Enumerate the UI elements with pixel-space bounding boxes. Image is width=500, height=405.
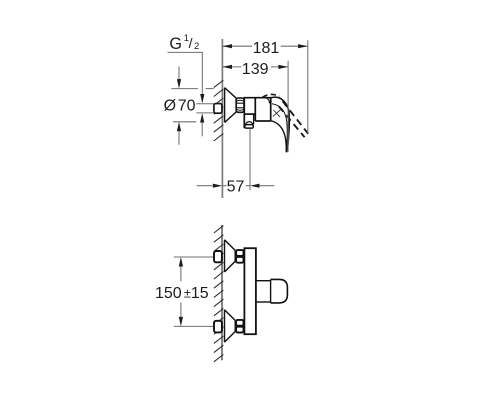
svg-text:57: 57 xyxy=(227,179,245,196)
wall hatching (plan view) xyxy=(214,226,224,362)
bottom union nut (plan) xyxy=(236,320,243,326)
svg-text:/: / xyxy=(189,35,193,51)
extension line for 181 xyxy=(307,40,309,133)
lever inner contour line xyxy=(272,104,287,152)
dimension 139 xyxy=(223,66,288,68)
svg-text:150±15: 150±15 xyxy=(155,285,209,302)
dimension 181 xyxy=(223,45,308,47)
shower outlet (side view) xyxy=(245,114,254,128)
dimension 150 ±15 xyxy=(174,256,214,258)
cartridge housing (plan) xyxy=(256,280,271,282)
extension line for 139 xyxy=(287,61,289,152)
G1/2 extension lines at nipple xyxy=(196,103,214,105)
lever detail cross xyxy=(273,110,281,117)
wall (side view) xyxy=(221,39,223,198)
top union nut (plan) xyxy=(236,250,243,256)
svg-text:G: G xyxy=(169,35,182,53)
rotation arc with arrowhead xyxy=(265,97,270,103)
bottom escutcheon (plan) xyxy=(225,310,236,342)
mixer body (side view) xyxy=(244,98,270,129)
lever handle underside edge xyxy=(271,121,287,153)
svg-text:2: 2 xyxy=(194,41,199,52)
extension line for 57 (outlet centre) xyxy=(249,129,251,191)
handle cap (plan) xyxy=(271,279,288,303)
svg-text:Ø: Ø xyxy=(164,97,176,114)
supply nipple G1/2 xyxy=(214,104,222,114)
svg-text:181: 181 xyxy=(253,40,280,57)
lever alternate position (dashed) xyxy=(263,94,280,97)
label G 1/2 xyxy=(169,33,199,53)
leader G 1/2 xyxy=(168,52,203,94)
union nut (side view) xyxy=(236,98,244,112)
wall hatching (side view) xyxy=(214,80,224,141)
top escutcheon (plan) xyxy=(225,240,236,272)
svg-text:139: 139 xyxy=(242,61,269,78)
bottom supply elbow (plan) xyxy=(214,321,222,333)
lever handle (side view, solid): top+outer edge xyxy=(271,97,289,152)
wall (plan view) xyxy=(221,225,223,360)
top supply elbow (plan) xyxy=(214,251,222,262)
dimension 57 xyxy=(197,185,213,187)
body plate (plan) xyxy=(244,248,256,334)
svg-text:70: 70 xyxy=(178,97,196,114)
escutcheon (side view) xyxy=(225,88,237,123)
